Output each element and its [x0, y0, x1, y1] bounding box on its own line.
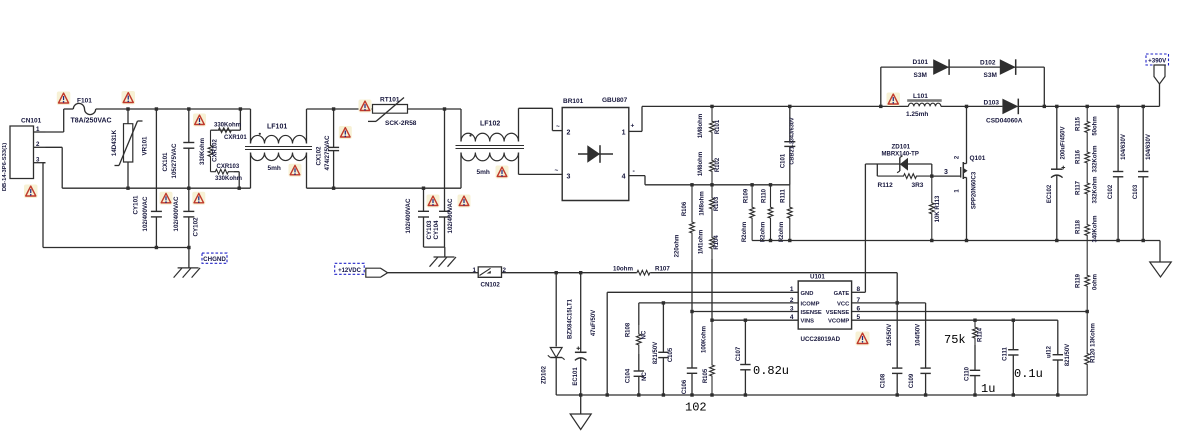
svg-text:102/400VAC: 102/400VAC [142, 196, 149, 232]
svg-text:332Kohm: 332Kohm [1093, 145, 1099, 172]
svg-text:R120 13Kohm: R120 13Kohm [1091, 323, 1097, 363]
value 0.1u for C111 [1014, 367, 1043, 381]
wire bottom ground bus [556, 393, 1087, 396]
capacitor C109 [909, 324, 931, 395]
chassis ground CHGND symbol [174, 268, 201, 278]
net label CHGND [202, 253, 227, 263]
svg-text:R106: R106 [682, 201, 688, 216]
wire GND pin1 [607, 292, 798, 395]
fuse F101 [64, 98, 128, 125]
wire +12V to CN102 [388, 272, 479, 274]
svg-text:330Kohm: 330Kohm [200, 138, 206, 165]
svg-text:R105: R105 [703, 368, 709, 383]
svg-text:3: 3 [944, 169, 948, 176]
varistor VR101 [111, 109, 149, 188]
svg-text:47uF/50V: 47uF/50V [591, 310, 597, 336]
svg-text:GND: GND [801, 291, 814, 297]
svg-text:+12VDC: +12VDC [338, 268, 362, 274]
svg-text:R111: R111 [781, 188, 787, 202]
warning triangle RT101 [359, 100, 372, 113]
svg-text:0.82u: 0.82u [753, 364, 789, 378]
svg-text:EC102: EC102 [1047, 184, 1053, 203]
warning triangle left of F101 [57, 92, 71, 106]
warning triangle CX102 [339, 126, 352, 139]
value 75k for R114 [944, 333, 966, 347]
resistor R112 [877, 164, 932, 189]
value 0.82u for C107 [753, 364, 789, 378]
svg-text:CN101: CN101 [21, 118, 42, 125]
svg-text:102: 102 [685, 401, 707, 415]
resistor R114 [973, 320, 984, 345]
svg-text:CY104: CY104 [433, 220, 440, 239]
svg-text:S3M: S3M [984, 72, 997, 79]
capacitor EC101 [573, 273, 597, 395]
svg-text:CBB21-334J/630V: CBB21-334J/630V [790, 117, 796, 165]
svg-text:R109: R109 [744, 188, 750, 203]
svg-text:340Kohm: 340Kohm [1093, 215, 1099, 242]
mosfet Q101 [955, 106, 986, 240]
svg-text:CX102: CX102 [316, 146, 323, 165]
resistor R107 [613, 265, 670, 275]
svg-text:R115: R115 [1076, 116, 1082, 131]
svg-text:3: 3 [567, 174, 571, 181]
svg-text:C107: C107 [736, 346, 742, 361]
wire main DC bus [642, 105, 1160, 108]
svg-text:C111: C111 [1003, 346, 1009, 360]
capacitor CX102 [316, 109, 340, 188]
wire top after LF101 [307, 107, 373, 110]
capacitor C105 [653, 303, 674, 395]
svg-text:220ohm: 220ohm [675, 235, 681, 258]
capacitor C104 [626, 354, 649, 395]
svg-text:C104: C104 [626, 368, 632, 383]
wire live bus CX101 area [126, 107, 250, 110]
resistor CXR101 [211, 109, 248, 141]
bridge rectifier BR101 [555, 97, 636, 201]
svg-text:~: ~ [556, 124, 560, 131]
resistor R113 [929, 176, 940, 240]
svg-text:VINS: VINS [801, 319, 815, 325]
resistor R101 [698, 106, 721, 147]
resistor R119 [1076, 250, 1099, 312]
svg-text:VCC: VCC [837, 301, 850, 307]
svg-text:105/275VAC: 105/275VAC [171, 143, 178, 179]
svg-text:U101: U101 [810, 274, 825, 281]
svg-text:R108: R108 [626, 322, 632, 337]
wire power ground rail [752, 239, 1160, 262]
svg-text:1: 1 [473, 267, 477, 274]
wire bridge pin1 to bus [629, 106, 642, 131]
svg-text:3: 3 [36, 157, 40, 164]
svg-text:0.1u: 0.1u [1014, 367, 1043, 381]
capacitor C103 [1133, 106, 1152, 240]
wire VINS pin4 [710, 319, 798, 322]
svg-text:1u: 1u [981, 382, 995, 396]
svg-text:LF102: LF102 [480, 121, 500, 128]
svg-text:10ohm: 10ohm [613, 265, 633, 272]
svg-text:NC: NC [642, 372, 648, 381]
svg-text:ZD102: ZD102 [542, 365, 548, 384]
svg-text:CY102: CY102 [193, 217, 200, 236]
svg-text:C105: C105 [668, 347, 674, 362]
svg-text:C101: C101 [781, 153, 787, 168]
svg-text:R103: R103 [714, 196, 720, 211]
warning triangle CY103 [427, 195, 440, 208]
svg-text:1M8ohm: 1M8ohm [700, 191, 706, 215]
capacitor CY103 (neutral to earth) [405, 188, 433, 247]
svg-text:1M1ohm: 1M1ohm [699, 230, 705, 254]
svg-text:Q101: Q101 [970, 155, 986, 162]
svg-text:VSENSE: VSENSE [826, 310, 850, 316]
svg-text:1M8ohm: 1M8ohm [698, 152, 704, 176]
svg-text:GBU807: GBU807 [602, 97, 628, 104]
capacitor C110 [965, 345, 981, 395]
svg-text:1.25mh: 1.25mh [906, 111, 928, 118]
resistor R104 [699, 222, 721, 259]
svg-text:R119: R119 [1076, 273, 1082, 288]
svg-text:102/400VAC: 102/400VAC [405, 198, 412, 234]
resistor CXR102 [200, 130, 219, 172]
warning triangle LF101 [289, 164, 302, 177]
svg-text:R2ohm: R2ohm [761, 222, 767, 242]
wire ZD101 right to gate [930, 164, 961, 178]
svg-text:C109: C109 [909, 373, 915, 388]
connector CN101 [2, 118, 46, 192]
svg-text:200uF/450V: 200uF/450V [1061, 126, 1067, 159]
wire CY103 CY104 earth [424, 247, 445, 257]
svg-text:VCOMP: VCOMP [828, 319, 849, 325]
warning triangle CY104 [458, 195, 471, 208]
svg-text:R116: R116 [1076, 149, 1082, 164]
svg-text:821/50V: 821/50V [1065, 344, 1071, 366]
svg-text:3R3: 3R3 [912, 182, 924, 189]
svg-text:R117: R117 [1076, 180, 1082, 195]
resistor R102 [698, 147, 721, 185]
svg-text:1: 1 [622, 130, 626, 137]
svg-text:1M8ohm: 1M8ohm [698, 114, 704, 138]
resistor R106 [675, 185, 695, 260]
wire VSENSE pin6 [852, 310, 1089, 313]
svg-text:BZX84C15LT1: BZX84C15LT1 [568, 298, 574, 339]
wire neutral after LF101 [307, 187, 462, 190]
wire +12V to VCC corner [650, 273, 897, 303]
svg-text:F101: F101 [77, 98, 92, 105]
diode D102 [980, 59, 1016, 79]
svg-text:1: 1 [36, 126, 40, 133]
wire VCOMP pin5 [852, 319, 1058, 355]
svg-text:R2ohm: R2ohm [779, 222, 785, 242]
warning triangle U101 [856, 332, 870, 346]
capacitor C101 [781, 106, 796, 184]
svg-text:R110: R110 [762, 188, 768, 203]
value 102 for C106 [685, 401, 707, 415]
svg-text:104/50V: 104/50V [916, 324, 922, 346]
common-mode choke LF102 [456, 108, 563, 188]
svg-text:C106: C106 [682, 379, 688, 394]
svg-text:14D431K: 14D431K [111, 129, 118, 156]
wire +12V line [502, 271, 637, 274]
resistor R116 [1076, 142, 1099, 173]
svg-text:UCC28019AD: UCC28019AD [801, 336, 841, 343]
svg-text:R112: R112 [878, 182, 894, 189]
resistor CXR103 [211, 164, 243, 188]
svg-text:R118: R118 [1076, 219, 1082, 234]
svg-text:uI12: uI12 [1047, 345, 1053, 358]
svg-text:104/630V: 104/630V [1146, 134, 1152, 160]
svg-text:50ohm: 50ohm [1093, 116, 1099, 135]
svg-text:+: + [631, 123, 635, 130]
svg-text:CHGND: CHGND [203, 256, 226, 263]
svg-text:CX101: CX101 [162, 152, 169, 171]
capacitor C106 [682, 312, 697, 396]
capacitor CX101 [162, 109, 194, 188]
svg-text:S3M: S3M [914, 72, 927, 79]
power ground symbol right [1150, 262, 1172, 277]
svg-text:~: ~ [555, 168, 559, 175]
capacitor C108 [881, 303, 903, 395]
resistor R103 [700, 185, 721, 222]
svg-text:GATE: GATE [834, 291, 850, 297]
svg-text:L101: L101 [913, 93, 928, 100]
warning triangle below CN101 [24, 185, 38, 199]
connector CN102 [473, 267, 507, 289]
capacitor C112 [1047, 344, 1072, 395]
svg-text:D102: D102 [980, 60, 996, 67]
wire bridge negative rail [645, 183, 790, 186]
svg-text:CXR101: CXR101 [224, 135, 247, 141]
wire earth line left [43, 246, 191, 268]
resistor R118 [1076, 204, 1099, 250]
svg-text:330Kohm: 330Kohm [214, 122, 241, 128]
svg-text:102/400VAC: 102/400VAC [173, 196, 180, 232]
warning triangle L101 [887, 93, 901, 107]
svg-text:T8A/250VAC: T8A/250VAC [71, 118, 112, 125]
svg-text:R114: R114 [978, 327, 984, 342]
thermistor RT101 [368, 97, 461, 128]
svg-text:R101: R101 [715, 119, 721, 134]
wire ISENSE pin3 [690, 310, 798, 313]
svg-text:VR101: VR101 [142, 136, 149, 155]
svg-text:C103: C103 [1133, 184, 1139, 199]
svg-text:ISENSE: ISENSE [801, 310, 822, 316]
svg-text:NC: NC [642, 330, 648, 339]
svg-text:CXR103: CXR103 [217, 164, 240, 170]
resistor R110 [761, 185, 773, 242]
svg-text:BR101: BR101 [563, 98, 584, 105]
svg-text:75k: 75k [944, 333, 966, 347]
svg-text:C108: C108 [881, 373, 887, 388]
svg-text:D101: D101 [913, 59, 929, 66]
svg-text:10K R113: 10K R113 [935, 195, 941, 222]
IC U101 UCC28019AD [790, 274, 861, 343]
warning triangle CY101 [160, 192, 173, 205]
wire CN101 pin3 to earth [43, 163, 46, 248]
common-mode choke LF101 [245, 109, 312, 188]
svg-text:+390V: +390V [1148, 58, 1167, 65]
resistor R109 [742, 185, 755, 242]
svg-text:R102: R102 [715, 157, 721, 172]
ground symbol below EC101 [570, 395, 591, 430]
svg-text:R104: R104 [714, 235, 720, 250]
wire R106 to ISENSE [691, 260, 693, 312]
svg-text:RT101: RT101 [380, 97, 400, 104]
svg-text:CY103: CY103 [426, 220, 433, 239]
resistor R120 [1085, 312, 1097, 396]
capacitor CY104 (live to earth) [433, 109, 454, 247]
wire GATE pin8 [852, 291, 866, 293]
capacitor EC102 [1047, 106, 1067, 240]
svg-text:102/400VAC: 102/400VAC [447, 198, 454, 234]
net label +12VDC [335, 263, 388, 277]
svg-text:0ohm: 0ohm [1093, 274, 1099, 290]
svg-text:ZD101: ZD101 [892, 143, 911, 150]
warning triangle CY102 [192, 192, 205, 205]
svg-text:2: 2 [567, 130, 571, 137]
chassis ground below CY104 [430, 257, 457, 267]
svg-text:D103: D103 [984, 100, 1000, 107]
svg-text:SCK-2R58: SCK-2R58 [385, 120, 417, 127]
svg-text:C110: C110 [965, 366, 971, 381]
resistor R108 [626, 303, 648, 354]
diode D103 [984, 99, 1023, 125]
wire R104 to VINS [711, 259, 713, 320]
svg-text:5mh: 5mh [477, 169, 490, 176]
capacitor C102 [1108, 106, 1127, 240]
resistor R115 [1076, 106, 1099, 142]
svg-text:CSD04060A: CSD04060A [986, 118, 1023, 125]
svg-text:CN102: CN102 [481, 282, 501, 289]
svg-text:105/50V: 105/50V [887, 324, 893, 346]
warning triangle right of F101 [122, 91, 136, 105]
warning triangle LF102 [496, 166, 509, 179]
svg-text:330Kohm: 330Kohm [215, 176, 242, 182]
svg-text:100Kohm: 100Kohm [702, 326, 708, 353]
svg-text:DB-14-3P6-S33(1): DB-14-3P6-S33(1) [2, 143, 8, 191]
svg-text:821/50V: 821/50V [653, 342, 659, 364]
capacitor C111 [1003, 320, 1019, 395]
resistor R105 [702, 320, 715, 395]
svg-text:LF101: LF101 [267, 123, 287, 130]
zener ZD102 [542, 273, 574, 395]
wire VCC pin7 [852, 301, 926, 368]
wire CN101 pin1 to fuse [46, 109, 64, 132]
wire branch up to D101 D102 [881, 67, 1045, 106]
svg-text:332Kohm: 332Kohm [1093, 176, 1099, 203]
svg-text:4: 4 [622, 174, 626, 181]
value 1u for C110 [981, 382, 995, 396]
zener ZD101 [882, 143, 932, 172]
wire gate column [865, 164, 899, 292]
wire CN101 pin2 to neutral [46, 147, 63, 188]
resistor R117 [1076, 173, 1099, 204]
svg-text:104/630V: 104/630V [1121, 134, 1127, 160]
svg-text:R107: R107 [655, 265, 670, 272]
diode D101 [913, 59, 950, 79]
net label +390V [1146, 54, 1169, 106]
capacitor CY102 (neutral to earth) [173, 188, 200, 247]
svg-text:SPP20N60C3: SPP20N60C3 [972, 171, 978, 209]
svg-text:CY101: CY101 [133, 195, 140, 214]
svg-text:2: 2 [36, 141, 40, 148]
warning triangle CXR network [193, 114, 206, 127]
resistor R111 [779, 185, 792, 242]
wire neutral left section [62, 187, 250, 190]
svg-text:474/275VAC: 474/275VAC [324, 135, 331, 171]
svg-text:R2ohm: R2ohm [742, 222, 748, 242]
wire ICOMP pin2 [639, 301, 798, 304]
capacitor C107 [736, 320, 751, 395]
svg-text:MBRX140-TP: MBRX140-TP [882, 152, 919, 158]
svg-text:5mh: 5mh [268, 165, 281, 172]
capacitor CY101 (live to earth) [133, 109, 162, 248]
svg-text:C102: C102 [1108, 184, 1114, 199]
wire bridge pin4 to rail [629, 176, 645, 185]
inductor L101 [906, 93, 942, 118]
svg-text:EC101: EC101 [573, 367, 579, 386]
svg-text:CXR102: CXR102 [213, 139, 219, 162]
svg-text:ICOMP: ICOMP [801, 301, 820, 307]
